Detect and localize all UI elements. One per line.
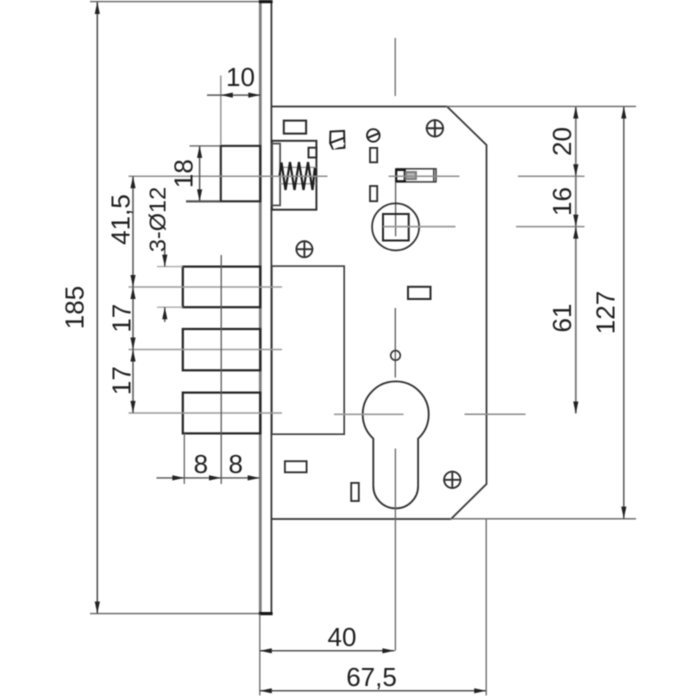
spindle square hole xyxy=(383,214,409,241)
dimension 40 xyxy=(260,622,395,653)
spring xyxy=(280,162,316,190)
deadbolt 3 xyxy=(183,393,260,434)
dimension chain 41,5 / 17 / 17 xyxy=(105,176,136,413)
cylinder vertical centerline xyxy=(394,449,396,651)
svg-text:17: 17 xyxy=(107,366,137,395)
cylinder horizontal centerline xyxy=(334,413,526,415)
dimension 18 xyxy=(169,146,221,202)
pin centerline xyxy=(389,175,460,177)
deadbolt centerline 3 xyxy=(129,412,283,414)
latch box notch xyxy=(309,148,317,158)
svg-text:20: 20 xyxy=(547,127,577,156)
svg-text:18: 18 xyxy=(169,159,199,188)
latch housing box xyxy=(272,141,317,210)
dimension 185 xyxy=(60,2,260,614)
bent tab clip xyxy=(330,131,344,149)
case hole rect bottom left xyxy=(285,461,307,472)
deadbolt centerline 2 xyxy=(129,349,283,351)
svg-text:16: 16 xyxy=(547,187,577,216)
screw hole cross mid xyxy=(296,240,314,258)
case hole small rect 2 xyxy=(370,186,377,201)
svg-text:3-Ø12: 3-Ø12 xyxy=(145,187,171,252)
latch tail plate xyxy=(272,144,280,206)
svg-text:8: 8 xyxy=(194,449,208,479)
latch centerline xyxy=(129,175,328,177)
small hole above cylinder xyxy=(391,351,401,361)
deadbolt centerline 1 xyxy=(129,286,283,288)
latch bolt xyxy=(221,146,260,201)
svg-text:127: 127 xyxy=(590,291,620,334)
handle axis stub above case xyxy=(394,38,396,96)
dimension 8 8 xyxy=(157,434,260,485)
extension line y176 right xyxy=(518,175,585,177)
right extension top xyxy=(446,105,636,107)
spindle vertical centerline xyxy=(394,182,396,378)
lock case outline xyxy=(272,107,487,520)
gearbox big rect xyxy=(272,266,344,434)
faceplate xyxy=(259,2,273,614)
svg-text:17: 17 xyxy=(107,304,137,333)
deadbolt 2 xyxy=(183,329,260,370)
deadbolt vertical centerline xyxy=(220,255,222,484)
extension line y227 right xyxy=(516,226,585,228)
deadbolt 1 xyxy=(183,267,260,308)
euro cylinder profile xyxy=(363,381,429,508)
dimension 67,5 xyxy=(260,662,486,693)
spindle follower circle xyxy=(372,203,419,250)
screw hole cross top xyxy=(426,119,444,137)
spindle centerline xyxy=(383,226,456,228)
case hole rect right mid xyxy=(408,287,431,299)
svg-text:61: 61 xyxy=(547,304,577,333)
spring guide lines xyxy=(280,167,316,183)
svg-text:40: 40 xyxy=(328,622,357,652)
dimension 10 xyxy=(207,62,260,145)
case hole small rect 1 xyxy=(370,148,377,162)
case hole rect top xyxy=(284,121,306,134)
dimension chain 20 / 16 / 61 xyxy=(547,107,579,414)
svg-text:8: 8 xyxy=(228,449,242,479)
svg-text:10: 10 xyxy=(226,62,255,92)
dimension 3-O12 xyxy=(145,187,183,322)
svg-text:185: 185 xyxy=(60,286,90,329)
dimension 127 xyxy=(590,107,626,519)
case hole small rect 3 xyxy=(351,483,359,501)
screw hole cross bottom xyxy=(443,471,461,489)
right extension bottom xyxy=(450,518,636,520)
bottom extension lines xyxy=(260,519,486,696)
svg-text:67,5: 67,5 xyxy=(346,662,397,692)
svg-text:41,5: 41,5 xyxy=(105,194,135,245)
screw head with slot xyxy=(367,129,380,142)
stop pin part xyxy=(396,169,436,182)
